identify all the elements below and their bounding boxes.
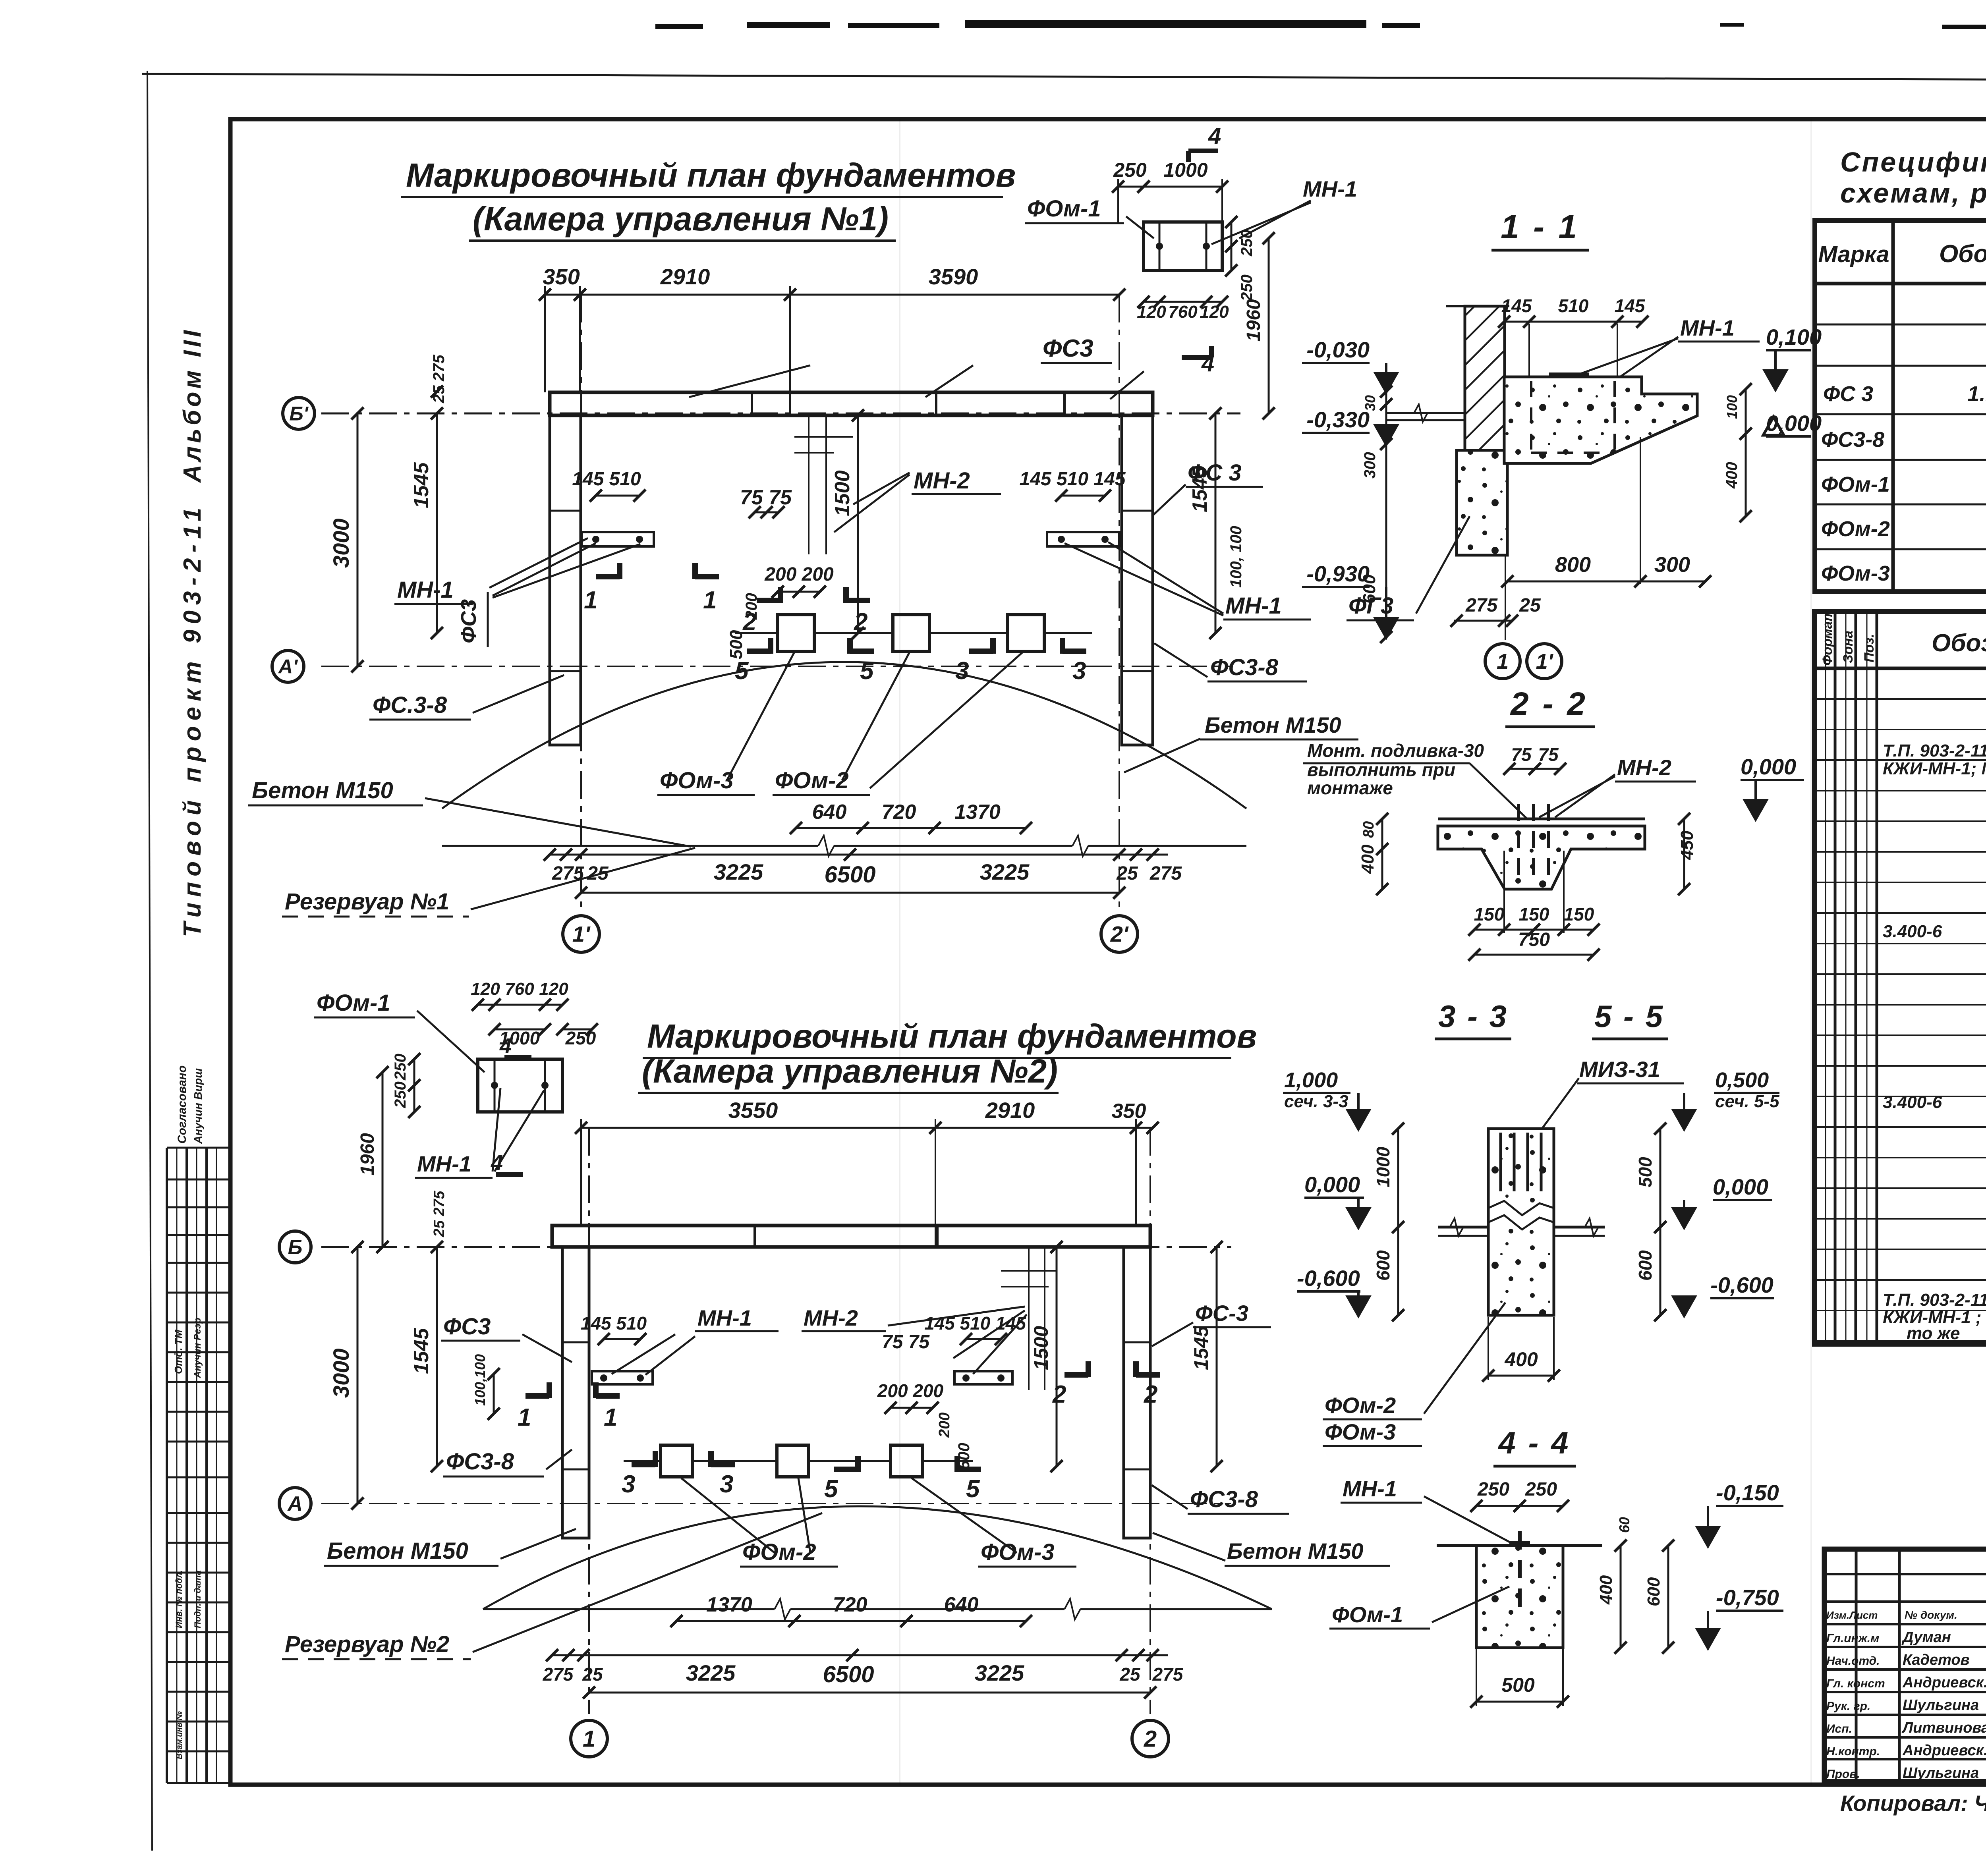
svg-text:100: 100 <box>1724 395 1740 419</box>
svg-text:25: 25 <box>582 1664 603 1685</box>
svg-text:145 510: 145 510 <box>581 1313 647 1334</box>
svg-text:250: 250 <box>1113 159 1147 181</box>
svg-text:500: 500 <box>726 630 746 659</box>
svg-text:1,000: 1,000 <box>1284 1068 1338 1092</box>
svg-text:Поз.: Поз. <box>1862 634 1877 662</box>
svg-text:Андриевск.: Андриевск. <box>1902 1742 1986 1759</box>
svg-text:25: 25 <box>431 1220 448 1237</box>
svg-text:300: 300 <box>1654 553 1690 577</box>
svg-text:Подп. и дата: Подп. и дата <box>193 1570 203 1628</box>
svg-text:0,000: 0,000 <box>1741 754 1796 779</box>
svg-text:1: 1 <box>583 1726 595 1752</box>
svg-text:80: 80 <box>1360 821 1377 838</box>
svg-text:3.400-6: 3.400-6 <box>1883 922 1942 941</box>
svg-text:300: 300 <box>1361 452 1379 479</box>
svg-text:ФОм-1: ФОм-1 <box>1332 1602 1403 1627</box>
svg-text:0,000: 0,000 <box>1304 1172 1360 1197</box>
svg-text:350: 350 <box>543 264 580 289</box>
svg-text:1 - 1: 1 - 1 <box>1501 208 1579 245</box>
svg-text:150: 150 <box>1564 904 1594 924</box>
svg-text:А: А <box>287 1492 303 1515</box>
svg-text:Б': Б' <box>289 403 309 425</box>
svg-text:МН-1: МН-1 <box>1680 315 1735 340</box>
svg-text:1: 1 <box>584 587 597 614</box>
svg-text:Шульгина: Шульгина <box>1903 1765 1979 1781</box>
svg-text:760: 760 <box>505 979 534 999</box>
svg-text:Гл. конст: Гл. конст <box>1826 1677 1885 1690</box>
svg-text:Шульгина: Шульгина <box>1903 1697 1979 1714</box>
svg-text:(Камера управления №1): (Камера управления №1) <box>473 200 889 237</box>
svg-text:ФС 3: ФС 3 <box>1188 460 1242 486</box>
svg-text:МН-2: МН-2 <box>914 468 970 494</box>
svg-text:ФОм-3: ФОм-3 <box>1821 562 1890 585</box>
svg-text:25: 25 <box>1116 863 1138 884</box>
svg-text:МН-1: МН-1 <box>1303 176 1357 201</box>
svg-text:0,000: 0,000 <box>1713 1174 1768 1199</box>
svg-text:Маркировочный план фундамент: Маркировочный план фундаментов <box>406 156 1016 194</box>
svg-text:1: 1 <box>518 1404 531 1431</box>
svg-text:75 75: 75 75 <box>882 1332 930 1353</box>
svg-text:ФОм-3: ФОм-3 <box>660 768 734 793</box>
svg-text:250: 250 <box>565 1028 596 1048</box>
svg-text:1545: 1545 <box>410 1328 433 1374</box>
svg-text:МН-2: МН-2 <box>1617 755 1671 780</box>
svg-text:Маркировочный план фундамент: Маркировочный план фундаментов <box>647 1017 1257 1055</box>
svg-text:120: 120 <box>1200 302 1229 322</box>
svg-text:275: 275 <box>1465 595 1498 616</box>
svg-text:Н.контр.: Н.контр. <box>1826 1745 1880 1758</box>
svg-text:400: 400 <box>1504 1348 1538 1370</box>
svg-text:200: 200 <box>743 593 760 620</box>
svg-text:200 200: 200 200 <box>877 1380 944 1401</box>
svg-text:Нач.отд.: Нач.отд. <box>1826 1654 1880 1668</box>
svg-text:1: 1 <box>1497 650 1509 674</box>
svg-text:Пров.: Пров. <box>1826 1768 1860 1781</box>
svg-text:(Камера управления №2): (Камера управления №2) <box>642 1052 1058 1090</box>
svg-text:ФС3-8: ФС3-8 <box>1190 1486 1258 1512</box>
svg-text:ФС-3: ФС-3 <box>1195 1301 1248 1326</box>
svg-text:1000: 1000 <box>1373 1146 1393 1187</box>
svg-text:4: 4 <box>491 1151 503 1175</box>
svg-text:Бетон М150: Бетон М150 <box>252 778 393 803</box>
svg-text:640: 640 <box>944 1593 979 1616</box>
svg-text:250: 250 <box>1477 1479 1509 1500</box>
svg-text:720: 720 <box>833 1593 867 1616</box>
svg-text:3: 3 <box>622 1471 635 1498</box>
svg-text:400: 400 <box>1596 1575 1616 1605</box>
svg-text:ФОм-3: ФОм-3 <box>1325 1419 1396 1444</box>
svg-text:ФОм-2: ФОм-2 <box>1325 1393 1396 1418</box>
svg-text:2910: 2910 <box>985 1098 1035 1123</box>
svg-text:Изм.Лист: Изм.Лист <box>1826 1609 1878 1621</box>
svg-text:1500: 1500 <box>831 470 854 516</box>
svg-text:-0,750: -0,750 <box>1716 1585 1779 1610</box>
svg-text:120: 120 <box>471 979 500 999</box>
svg-text:2910: 2910 <box>660 264 710 289</box>
svg-text:монтаже: монтаже <box>1307 778 1393 798</box>
svg-text:ФС3: ФС3 <box>443 1314 491 1339</box>
svg-text:3225: 3225 <box>975 1660 1024 1685</box>
svg-text:ФС3: ФС3 <box>1043 335 1093 362</box>
svg-text:1500: 1500 <box>1030 1326 1052 1370</box>
svg-text:Рук. гр.: Рук. гр. <box>1826 1700 1870 1713</box>
svg-text:1545: 1545 <box>1190 1326 1212 1370</box>
svg-text:1370: 1370 <box>954 801 1001 824</box>
svg-text:Взам.инв.№: Взам.инв.№ <box>175 1711 184 1759</box>
svg-text:500: 500 <box>955 1443 973 1469</box>
svg-text:2': 2' <box>1110 922 1129 947</box>
svg-text:ФС3-8: ФС3-8 <box>1210 654 1279 680</box>
svg-text:2: 2 <box>1052 1381 1066 1408</box>
svg-text:Альбом III: Альбом III <box>179 327 206 483</box>
svg-text:145 510 145: 145 510 145 <box>1020 469 1126 490</box>
svg-text:275: 275 <box>1152 1664 1184 1685</box>
svg-text:1: 1 <box>604 1404 617 1431</box>
svg-text:600: 600 <box>1635 1250 1656 1281</box>
svg-text:Обозначение: Обозначение <box>1932 629 1986 657</box>
svg-text:75: 75 <box>1511 744 1532 765</box>
svg-text:Анучин Реэр: Анучин Реэр <box>192 1318 203 1378</box>
svg-text:250: 250 <box>392 1054 409 1081</box>
svg-text:1960: 1960 <box>357 1133 378 1175</box>
svg-text:МН-1: МН-1 <box>1343 1476 1397 1501</box>
svg-text:75 75: 75 75 <box>740 486 792 509</box>
svg-text:Анучин Вирш: Анучин Вирш <box>192 1068 204 1144</box>
svg-text:3000: 3000 <box>328 1348 354 1398</box>
svg-text:№ докум.: № докум. <box>1905 1609 1957 1621</box>
svg-text:1000: 1000 <box>1163 159 1207 181</box>
svg-text:500: 500 <box>1501 1674 1535 1696</box>
svg-text:3000: 3000 <box>328 518 354 568</box>
svg-text:0,500: 0,500 <box>1715 1068 1769 1092</box>
svg-text:2 - 2: 2 - 2 <box>1510 686 1588 722</box>
svg-text:ФОм-1: ФОм-1 <box>1027 196 1101 222</box>
svg-text:275: 275 <box>543 1664 574 1685</box>
svg-text:3: 3 <box>720 1471 733 1498</box>
svg-text:1960: 1960 <box>1243 299 1264 342</box>
svg-text:1545: 1545 <box>410 462 433 508</box>
svg-text:275: 275 <box>552 863 584 884</box>
svg-text:МН-1: МН-1 <box>1225 593 1282 619</box>
svg-text:510: 510 <box>1558 295 1589 316</box>
svg-text:60: 60 <box>1616 1517 1632 1533</box>
svg-text:275: 275 <box>430 355 448 382</box>
svg-text:КЖИ-МН-1; МН-2: КЖИ-МН-1; МН-2 <box>1883 759 1986 778</box>
svg-text:3225: 3225 <box>714 859 763 884</box>
svg-text:3225: 3225 <box>686 1660 736 1685</box>
svg-text:145 510: 145 510 <box>572 469 641 490</box>
svg-text:3550: 3550 <box>728 1098 778 1123</box>
svg-text:150: 150 <box>1474 904 1505 924</box>
svg-text:Т.П. 903-2-11: Т.П. 903-2-11 <box>1883 741 1986 760</box>
svg-text:500: 500 <box>1635 1157 1656 1187</box>
svg-text:ФС3-8: ФС3-8 <box>446 1449 514 1475</box>
svg-text:Согласовано: Согласовано <box>176 1065 189 1144</box>
svg-text:Б: Б <box>288 1236 303 1259</box>
svg-text:350: 350 <box>1112 1100 1146 1123</box>
svg-text:Литвинова: Литвинова <box>1901 1720 1986 1736</box>
svg-text:-0,600: -0,600 <box>1710 1272 1773 1297</box>
svg-text:250: 250 <box>392 1081 409 1108</box>
svg-text:3225: 3225 <box>980 859 1030 884</box>
svg-text:1': 1' <box>1536 650 1554 674</box>
svg-text:Бетон М150: Бетон М150 <box>327 1538 468 1564</box>
svg-text:МН-1: МН-1 <box>417 1151 471 1176</box>
svg-text:Бетон М150: Бетон М150 <box>1227 1538 1364 1563</box>
svg-text:Копировал: Чубанова: Копировал: Чубанова <box>1840 1791 1986 1816</box>
svg-text:-0,330: -0,330 <box>1306 407 1370 432</box>
svg-text:ФОм-2: ФОм-2 <box>742 1539 816 1565</box>
svg-text:150: 150 <box>1519 904 1549 924</box>
svg-text:Марка: Марка <box>1818 241 1889 267</box>
svg-text:25: 25 <box>587 863 609 884</box>
svg-text:-0,600: -0,600 <box>1297 1266 1360 1291</box>
svg-text:Типовой проект 903-2-11: Типовой проект 903-2-11 <box>179 502 206 937</box>
svg-text:800: 800 <box>1555 553 1591 577</box>
svg-text:4: 4 <box>1208 123 1221 149</box>
svg-text:4 - 4: 4 - 4 <box>1497 1425 1570 1460</box>
svg-text:120: 120 <box>1137 302 1166 322</box>
svg-text:3: 3 <box>955 657 969 685</box>
svg-text:200 200: 200 200 <box>764 564 834 585</box>
svg-text:600: 600 <box>1373 1250 1393 1281</box>
svg-text:200: 200 <box>936 1413 953 1438</box>
svg-text:Инв. № подл.: Инв. № подл. <box>174 1570 184 1628</box>
svg-text:Монт. подливка-30: Монт. подливка-30 <box>1307 740 1484 761</box>
svg-text:250: 250 <box>1238 274 1256 301</box>
svg-text:Бетон М150: Бетон М150 <box>1205 712 1341 737</box>
svg-text:ФС 3: ФС 3 <box>1823 382 1873 406</box>
svg-text:ФГ3: ФГ3 <box>1348 593 1393 619</box>
svg-text:МН-2: МН-2 <box>804 1305 858 1330</box>
svg-text:сеч. 5-5: сеч. 5-5 <box>1715 1092 1779 1111</box>
svg-text:4: 4 <box>499 1034 512 1058</box>
svg-text:Отд. ТМ: Отд. ТМ <box>172 1329 184 1374</box>
svg-text:750: 750 <box>1518 929 1550 950</box>
svg-text:6500: 6500 <box>823 1662 874 1687</box>
svg-text:5: 5 <box>824 1475 838 1503</box>
svg-text:275: 275 <box>431 1191 448 1216</box>
svg-text:25: 25 <box>1119 1664 1141 1685</box>
svg-text:100,100: 100,100 <box>472 1354 488 1406</box>
svg-text:3: 3 <box>1072 657 1086 685</box>
svg-text:400: 400 <box>1358 844 1377 874</box>
svg-text:75: 75 <box>1538 744 1559 765</box>
svg-text:3.400-6: 3.400-6 <box>1883 1092 1942 1112</box>
svg-text:ФС3-8: ФС3-8 <box>1821 428 1884 452</box>
svg-text:100, 100: 100, 100 <box>1227 526 1245 588</box>
svg-text:30: 30 <box>1362 395 1378 411</box>
svg-text:ФОм-3: ФОм-3 <box>981 1539 1055 1565</box>
svg-text:МИЗ-31: МИЗ-31 <box>1579 1057 1660 1082</box>
svg-text:ФОм-1: ФОм-1 <box>317 990 390 1016</box>
svg-text:400: 400 <box>1723 462 1741 489</box>
svg-text:Резервуар №1: Резервуар №1 <box>285 889 449 915</box>
svg-text:Андриевск.: Андриевск. <box>1902 1674 1986 1691</box>
svg-text:275: 275 <box>1149 863 1182 884</box>
svg-text:ФОм-2: ФОм-2 <box>1821 517 1890 541</box>
svg-text:Обозначение: Обозначение <box>1939 240 1986 268</box>
svg-text:1: 1 <box>703 587 717 614</box>
svg-text:3590: 3590 <box>929 264 978 289</box>
svg-text:640: 640 <box>812 801 847 824</box>
svg-text:МН-1: МН-1 <box>397 577 454 603</box>
svg-text:Формат: Формат <box>1820 609 1835 666</box>
svg-text:Зона: Зона <box>1841 631 1856 663</box>
svg-text:Исп.: Исп. <box>1826 1722 1852 1735</box>
svg-text:1': 1' <box>572 922 591 947</box>
svg-text:Спецификация элементов к: Спецификация элементов к маркировочным <box>1840 147 1986 178</box>
svg-text:250: 250 <box>1525 1479 1557 1500</box>
svg-text:2: 2 <box>1144 1726 1157 1752</box>
svg-text:5 - 5: 5 - 5 <box>1594 999 1664 1034</box>
svg-text:-0,150: -0,150 <box>1716 1480 1779 1505</box>
svg-text:760: 760 <box>1168 302 1198 322</box>
svg-text:25: 25 <box>1519 595 1541 616</box>
svg-text:ФОм-2: ФОм-2 <box>775 768 849 793</box>
svg-text:600: 600 <box>1644 1577 1663 1606</box>
svg-text:Кадетов: Кадетов <box>1903 1652 1970 1668</box>
svg-text:сеч. 3-3: сеч. 3-3 <box>1284 1092 1348 1111</box>
svg-text:3 - 3: 3 - 3 <box>1438 999 1508 1034</box>
svg-text:ФС3: ФС3 <box>457 599 481 643</box>
svg-text:А': А' <box>278 656 298 678</box>
svg-text:ФОм-1: ФОм-1 <box>1821 473 1890 496</box>
svg-text:720: 720 <box>882 801 916 824</box>
svg-text:450: 450 <box>1677 830 1697 860</box>
svg-text:1370: 1370 <box>706 1593 752 1616</box>
svg-text:Гл.инж.м: Гл.инж.м <box>1826 1632 1879 1645</box>
svg-text:Т.П. 903-2-11: Т.П. 903-2-11 <box>1883 1290 1986 1310</box>
svg-text:1.116-1 В.I: 1.116-1 В.I <box>1967 382 1986 406</box>
svg-text:Резервуар №2: Резервуар №2 <box>285 1631 449 1657</box>
svg-text:то же: то же <box>1907 1324 1960 1343</box>
svg-text:2: 2 <box>1144 1381 1157 1408</box>
svg-text:Думан: Думан <box>1901 1629 1951 1646</box>
svg-text:145: 145 <box>1501 295 1532 316</box>
svg-text:МН-1: МН-1 <box>697 1305 752 1330</box>
svg-text:схемам, расположенным на ли: схемам, расположенным на листе <box>1840 178 1986 208</box>
svg-text:-0,030: -0,030 <box>1306 337 1370 362</box>
svg-text:145: 145 <box>1615 295 1646 316</box>
svg-text:6500: 6500 <box>824 862 875 888</box>
svg-text:120: 120 <box>539 979 568 999</box>
svg-text:5: 5 <box>966 1475 980 1503</box>
svg-text:ФС.3-8: ФС.3-8 <box>373 692 447 718</box>
